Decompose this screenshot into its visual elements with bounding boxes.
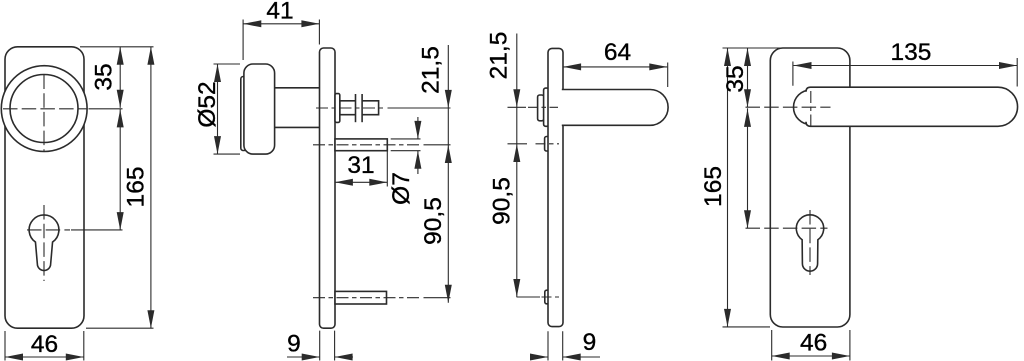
svg-text:35: 35 — [722, 65, 749, 92]
spindle collar — [335, 94, 340, 123]
dimension 35 line (view1) — [119, 47, 121, 108]
dimension 72 (unlabeled) line (view1) — [119, 109, 121, 230]
svg-text:31: 31 — [347, 152, 374, 179]
dimension 46 line (view4) — [772, 355, 850, 357]
dimension 72 (unlabeled) line (view4) — [747, 108, 749, 228]
spindle shaft left part — [340, 101, 356, 115]
plate P3 (side view) — [548, 48, 563, 326]
spindle break mark 1 — [355, 94, 357, 122]
dimension 165 line (view4) — [727, 48, 729, 327]
bottom screw (side view, view2) — [335, 291, 387, 304]
svg-text:165: 165 — [123, 167, 150, 208]
lever hub arc (view4) — [794, 90, 811, 125]
dimension 35 line (view4) — [747, 48, 749, 107]
dimension D7 extension lines — [391, 139, 421, 151]
spindle break mark 2 — [361, 94, 363, 122]
hub centerline horizontal (view4) — [746, 106, 831, 108]
svg-text:Ø7: Ø7 — [388, 172, 415, 205]
extension lines 46 (view1) — [5, 331, 84, 361]
dimension 46 extension lines (view4) — [772, 330, 850, 361]
dimension 9 extension lines (view2) — [320, 331, 335, 361]
top screw centerline — [313, 144, 422, 146]
dimension 41 line — [243, 23, 319, 25]
dimension 21,5 line (view2) — [447, 45, 449, 303]
bottom screw centerline (view3) — [517, 296, 541, 298]
plate P1 (front view) — [5, 47, 84, 328]
knob head (side view) — [244, 64, 275, 154]
svg-text:35: 35 — [91, 63, 118, 90]
dimension 46 line (view1) — [5, 356, 84, 358]
plate P4 (front view) — [770, 48, 850, 327]
dimension D52 line — [217, 64, 219, 154]
lever grip (front view) — [806, 87, 1018, 126]
extension line bottom (view1) — [86, 327, 154, 329]
extension line top (view1) — [80, 46, 154, 48]
dimension 21,5 / 90,5 chain line (view3) — [516, 34, 518, 298]
hub flange (side view) — [544, 88, 549, 126]
knob centerline horizontal — [3, 108, 87, 110]
dimension D52 extension lines — [214, 64, 241, 154]
dimension 135 extension lines — [793, 58, 1017, 87]
knob front lip (side view) — [241, 77, 247, 151]
extension line bottom (view4) — [723, 326, 771, 328]
svg-text:64: 64 — [604, 39, 631, 66]
svg-text:135: 135 — [891, 39, 932, 66]
svg-text:165: 165 — [700, 166, 727, 207]
hub cap (side view) — [538, 95, 544, 121]
keyhole (euro profile) view1 — [29, 215, 59, 271]
svg-text:46: 46 — [800, 329, 827, 356]
svg-text:41: 41 — [266, 0, 293, 24]
keyhole centerline horizontal view1 — [27, 229, 70, 231]
bottom screw centerline — [313, 297, 422, 299]
svg-text:21,5: 21,5 — [486, 32, 513, 80]
dimension 64 line — [563, 66, 667, 68]
top screw centerline (view3) — [508, 143, 528, 145]
dimension 165 line (view1) — [150, 47, 152, 328]
svg-text:46: 46 — [31, 331, 58, 358]
dimension 135 line — [794, 65, 1018, 67]
hub centerline vertical (view4) — [810, 91, 812, 129]
dimension 41 extension lines — [243, 20, 319, 61]
keyhole centerline vertical view4 — [809, 210, 811, 275]
top screw head bump (view3) — [545, 137, 550, 152]
plate P2 (side view) — [320, 48, 336, 328]
keyhole centerline vertical view1 — [43, 205, 45, 281]
knob neck lines — [275, 88, 320, 128]
dimension 31 line — [335, 181, 387, 183]
dimension D7 arrows — [417, 117, 419, 174]
dimension 64 extension line — [667, 63, 669, 88]
lever bar (side view) — [561, 90, 669, 126]
spindle shaft right part — [362, 101, 379, 115]
keyhole (euro profile) view4 — [796, 215, 823, 271]
extension line top (view4) — [723, 47, 786, 49]
svg-text:21,5: 21,5 — [418, 46, 445, 94]
hub centerline (view3) — [508, 106, 527, 108]
dimension 9 extension lines (view3) — [548, 331, 563, 360]
svg-text:9: 9 — [287, 331, 301, 358]
svg-text:9: 9 — [583, 329, 597, 356]
svg-text:90,5: 90,5 — [420, 197, 447, 245]
dimension 9 line (view2) — [287, 356, 353, 358]
svg-text:90,5: 90,5 — [489, 177, 516, 225]
svg-text:Ø52: Ø52 — [194, 81, 221, 127]
knob inner circle — [10, 75, 78, 143]
top screw (side view, view2) — [335, 139, 387, 151]
dimension 31 extension line — [386, 152, 388, 187]
knob centerline vertical — [43, 75, 45, 152]
dimension 9 line (view3) — [531, 356, 601, 358]
bottom screw head bump (view3) — [545, 290, 550, 304]
keyhole centerline horizontal view4 — [746, 227, 828, 229]
knob outer circle — [1, 66, 87, 152]
spindle centerline — [316, 107, 385, 109]
